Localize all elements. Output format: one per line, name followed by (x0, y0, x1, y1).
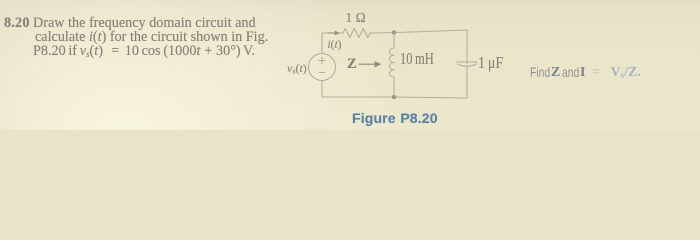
wire: bottom horizontal (322, 97, 467, 98)
label: capacitor value 1 uF (478, 57, 503, 68)
problem text line 3 (33, 44, 255, 61)
resistor R 1ohm (zigzag) (340, 29, 374, 38)
node B junction dot (bottom) (392, 95, 396, 99)
problem text line 1 (33, 16, 256, 30)
problem number 8.20 (4, 16, 30, 30)
circuit schematic SVG (280, 8, 520, 108)
wire: left vertical, source bottom to bottom-left corner (321, 81, 323, 98)
node A junction dot (top) (392, 30, 396, 34)
wire: capacitor branch top stub (466, 30, 468, 64)
side note: Find Z and I = Vs/Z (0, 0, 1, 1)
wire: inductor branch top stub (393, 33, 395, 48)
label: current i(t) (328, 40, 342, 51)
wire: top segment resistor to node A (374, 32, 394, 34)
wire: left vertical, corner to source top (321, 33, 323, 53)
label: impedance Z (347, 59, 357, 70)
voltage source Vs (circle with + -) (309, 54, 336, 81)
wire: top segment node A to top-right corner (394, 30, 467, 33)
wire: inductor branch bottom stub (393, 77, 395, 97)
problem text line 2 (35, 30, 268, 44)
label: resistor value 1 ohm (346, 12, 366, 23)
label: source vs(t) (287, 63, 307, 77)
capacitor C 1uF plates (457, 62, 477, 66)
inductor L 10mH (coil) (389, 48, 394, 77)
wire: capacitor branch bottom stub (466, 67, 468, 98)
label: inductor value 10 mH (400, 53, 434, 64)
impedance Z arrow (359, 63, 376, 65)
wire: top-left horizontal segment with current arrow (322, 31, 340, 35)
figure caption (352, 110, 438, 126)
